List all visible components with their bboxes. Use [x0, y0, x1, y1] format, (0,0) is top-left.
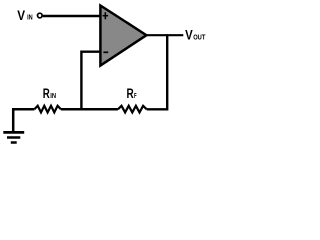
svg-text:IN: IN: [27, 13, 33, 22]
svg-text:OUT: OUT: [193, 32, 205, 41]
wire op-amp output: [145, 34, 183, 36]
resistor RIN: [34, 106, 61, 113]
wire inverting node up to - input: [81, 52, 99, 111]
op-amp + input marker: [103, 12, 109, 19]
op-amp U1: [100, 6, 146, 66]
svg-text:IN: IN: [50, 91, 56, 100]
label V_OUT: [185, 27, 206, 43]
wire RIN to RF (inverting node): [61, 108, 118, 111]
wire output junction down to RF: [147, 34, 168, 109]
wire RIN to ground: [13, 109, 34, 131]
svg-text:R: R: [127, 86, 134, 102]
svg-text:F: F: [134, 91, 137, 100]
input terminal (open circle): [38, 13, 43, 18]
label V_IN: [17, 8, 33, 24]
ground: [3, 132, 24, 142]
svg-text:R: R: [43, 86, 50, 102]
svg-text:V: V: [185, 27, 193, 43]
op-amp - input marker: [103, 51, 108, 53]
label RIN: [43, 86, 56, 102]
svg-text:V: V: [17, 8, 25, 24]
label RF: [127, 86, 137, 102]
resistor RF: [118, 106, 147, 113]
wire V_IN terminal to + input: [43, 15, 100, 18]
